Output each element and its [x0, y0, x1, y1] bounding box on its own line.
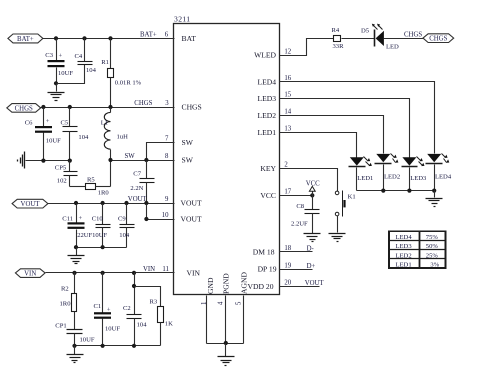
- svg-text:104: 104: [119, 232, 130, 239]
- svg-text:D-: D-: [307, 246, 315, 253]
- LED LED4: [426, 154, 452, 191]
- node junction pin10: [144, 217, 148, 221]
- svg-text:12: 12: [284, 48, 291, 55]
- capacitor C7 2.2N: [130, 161, 154, 204]
- resistor R3 1K: [135, 287, 174, 346]
- wire SW pin7 with bend: [147, 143, 175, 161]
- wire LED4 pin16: [280, 82, 435, 154]
- wire LED2 pin14: [280, 116, 384, 154]
- svg-text:D+: D+: [307, 263, 316, 270]
- node junction C6 bottom: [41, 159, 45, 163]
- svg-text:VOUT: VOUT: [305, 280, 325, 287]
- svg-text:10: 10: [162, 212, 169, 219]
- svg-text:9: 9: [165, 196, 169, 203]
- svg-text:LED: LED: [386, 43, 399, 50]
- wire SW pin8 rail: [111, 160, 175, 162]
- wire R5 up to SW: [110, 161, 112, 187]
- svg-text:KEY: KEY: [260, 164, 276, 173]
- svg-text:2: 2: [284, 162, 288, 169]
- svg-text:C6: C6: [25, 119, 33, 126]
- node junction C11 top: [74, 201, 78, 205]
- wire PGND pin4 down: [225, 296, 227, 344]
- capacitor C10 10UF: [92, 204, 111, 248]
- svg-text:SW: SW: [182, 156, 194, 165]
- svg-text:R3: R3: [150, 298, 158, 305]
- wire K1 to ground: [337, 216, 339, 233]
- node junction C10 bottom: [101, 245, 105, 249]
- svg-text:7: 7: [165, 136, 169, 143]
- svg-text:3: 3: [165, 100, 169, 107]
- svg-text:+: +: [107, 306, 111, 313]
- svg-text:10UF: 10UF: [92, 232, 107, 239]
- port VIN: [15, 269, 45, 278]
- node junction C2 R3 top: [132, 271, 136, 275]
- wire BAT+ rail: [43, 38, 175, 40]
- svg-text:1K: 1K: [165, 320, 173, 327]
- svg-text:2.2UF: 2.2UF: [291, 221, 308, 228]
- capacitor C6 polarized 10UF: [25, 108, 61, 161]
- svg-text:WLED: WLED: [254, 51, 276, 60]
- resistor R5 1R0: [70, 176, 111, 196]
- node junction VCC C8: [310, 193, 314, 197]
- svg-text:C11: C11: [62, 215, 73, 222]
- svg-text:C2: C2: [123, 305, 131, 312]
- svg-text:BAT: BAT: [182, 34, 197, 43]
- port BAT+: [8, 34, 43, 43]
- wire C4 bottom to C3 node: [57, 65, 85, 84]
- power VCC symbol: [306, 180, 320, 195]
- capacitor C1 polarized 10UF: [94, 273, 121, 346]
- svg-text:CHGS: CHGS: [134, 100, 152, 107]
- svg-text:20: 20: [284, 280, 291, 287]
- svg-text:4: 4: [217, 301, 224, 305]
- ground under IC GND pins: [218, 357, 235, 366]
- svg-text:VIN: VIN: [143, 266, 155, 273]
- svg-text:C4: C4: [75, 53, 83, 60]
- node junction C1 top: [101, 271, 105, 275]
- svg-text:3%: 3%: [430, 262, 439, 269]
- svg-text:6: 6: [165, 32, 169, 39]
- wire LED3 pin15: [280, 99, 410, 158]
- capacitor C4 104: [75, 39, 97, 74]
- svg-text:CHGS: CHGS: [182, 103, 202, 112]
- svg-text:11: 11: [162, 266, 169, 273]
- svg-text:VOUT: VOUT: [21, 201, 41, 208]
- LED LED2: [375, 154, 401, 191]
- node junction R3 branch: [132, 284, 136, 288]
- ground under CP1: [67, 346, 84, 363]
- wire VOUT pin9 rail: [48, 203, 175, 205]
- node junction LED4 bottom: [432, 189, 436, 193]
- resistor R1 0.01R: [101, 39, 141, 108]
- svg-text:0.01R 1%: 0.01R 1%: [115, 80, 142, 87]
- capacitor C3 polarized 10UF: [45, 39, 73, 84]
- svg-text:R1: R1: [101, 59, 109, 66]
- svg-text:10UF: 10UF: [58, 70, 73, 77]
- wire GND rail bottom: [207, 343, 244, 345]
- svg-text:LED3: LED3: [410, 175, 427, 182]
- svg-text:1R0: 1R0: [60, 300, 72, 307]
- svg-text:K1: K1: [348, 193, 356, 200]
- resistor R2 1R0: [60, 273, 77, 330]
- svg-text:104: 104: [137, 322, 148, 329]
- node junction C5 CP5: [68, 159, 72, 163]
- capacitor C9 104: [118, 204, 135, 248]
- svg-text:25%: 25%: [426, 252, 439, 259]
- svg-text:16: 16: [284, 75, 291, 82]
- svg-text:33R: 33R: [333, 43, 345, 50]
- wire WLED pin12: [280, 39, 334, 56]
- node junction PGND rail: [224, 341, 228, 345]
- svg-text:15: 15: [284, 92, 291, 99]
- svg-text:VIN: VIN: [24, 270, 36, 277]
- svg-text:VOUT: VOUT: [181, 215, 202, 224]
- port CHGS: [7, 104, 41, 113]
- svg-text:5: 5: [236, 301, 243, 305]
- capacitor CP5 102: [55, 161, 78, 187]
- svg-text:VCC: VCC: [260, 191, 276, 200]
- svg-text:LED2: LED2: [396, 252, 412, 259]
- wire VOUT caps bottom rail: [77, 247, 127, 249]
- node junction LED3 bottom: [407, 189, 411, 193]
- node junction C6 top: [41, 105, 45, 109]
- ground under C8: [304, 234, 321, 242]
- svg-text:CP1: CP1: [55, 322, 66, 329]
- svg-text:DP 19: DP 19: [258, 265, 277, 274]
- node junction R2 top: [72, 271, 76, 275]
- svg-text:LED3: LED3: [396, 243, 413, 250]
- wire VDD pin20: [280, 286, 320, 288]
- wire CHGS rail: [41, 107, 175, 109]
- ground under K1: [329, 234, 346, 242]
- svg-text:8: 8: [165, 153, 169, 160]
- svg-text:19: 19: [284, 262, 291, 269]
- capacitor C8 2.2UF: [291, 196, 320, 234]
- svg-text:R4: R4: [332, 27, 340, 34]
- svg-text:+: +: [46, 118, 50, 125]
- svg-text:DM 18: DM 18: [253, 247, 275, 256]
- inductor L1 1uH: [101, 108, 128, 161]
- svg-text:LED3: LED3: [257, 94, 276, 103]
- svg-text:C8: C8: [296, 203, 304, 210]
- svg-text:10UF: 10UF: [105, 325, 120, 332]
- svg-text:C7: C7: [133, 170, 141, 177]
- svg-text:3211: 3211: [174, 15, 191, 24]
- wire AGND pin5 down: [243, 296, 245, 344]
- wire ground rail left: [26, 160, 70, 162]
- node junction LED2 bottom: [381, 189, 385, 193]
- svg-text:C9: C9: [118, 215, 126, 222]
- svg-text:AGND: AGND: [240, 272, 249, 294]
- op-amp U1 main IC body 3211: [174, 24, 280, 295]
- svg-text:CHGS: CHGS: [429, 36, 447, 43]
- wire pin10 with bend: [147, 204, 175, 220]
- svg-text:LED4: LED4: [435, 174, 452, 181]
- svg-text:C5: C5: [61, 120, 69, 127]
- svg-text:VDD 20: VDD 20: [248, 282, 274, 291]
- wire VIN rail: [46, 272, 175, 274]
- wire VCC pin17: [280, 195, 313, 197]
- svg-text:102: 102: [57, 177, 67, 184]
- capacitor C2 104: [123, 273, 147, 346]
- svg-text:LED4: LED4: [257, 77, 276, 86]
- svg-text:R5: R5: [87, 176, 95, 183]
- svg-text:CP5: CP5: [55, 164, 67, 171]
- resistor R4 33R: [332, 27, 375, 50]
- LED LED1: [349, 157, 374, 191]
- svg-text:75%: 75%: [426, 234, 439, 241]
- svg-text:PGND: PGND: [221, 273, 230, 294]
- table LED duty percentages: [389, 231, 446, 268]
- ground under C11: [68, 248, 85, 264]
- svg-text:10UF: 10UF: [46, 137, 61, 144]
- LED LED3: [402, 157, 428, 191]
- svg-text:BAT+: BAT+: [17, 36, 34, 43]
- node junction C3 top: [54, 36, 58, 40]
- port VOUT: [12, 199, 48, 208]
- node junction C11 gnd: [74, 245, 78, 249]
- node junction L1 SW: [108, 158, 112, 162]
- svg-text:CHGS: CHGS: [15, 105, 33, 112]
- node junction C3 C4 bottom: [54, 81, 58, 85]
- svg-text:LED1: LED1: [257, 128, 276, 137]
- svg-text:2.2N: 2.2N: [130, 185, 143, 192]
- svg-text:+: +: [79, 215, 83, 222]
- svg-text:C3: C3: [45, 52, 53, 59]
- wire KEY pin2: [280, 169, 338, 192]
- svg-text:LED4: LED4: [396, 234, 413, 241]
- node junction R1 bottom L1 top: [108, 105, 112, 109]
- ground chassis left sideways: [18, 152, 25, 169]
- svg-text:22UF: 22UF: [77, 232, 92, 239]
- node junction C9 top: [124, 201, 128, 205]
- node junction C2 bottom: [132, 344, 136, 348]
- capacitor C5 104: [61, 108, 89, 161]
- svg-text:C1: C1: [94, 303, 102, 310]
- node junction C5 top: [68, 105, 72, 109]
- capacitor CP1 10UF: [55, 322, 95, 345]
- svg-text:VOUT: VOUT: [181, 199, 202, 208]
- svg-text:D5: D5: [361, 27, 370, 34]
- switch K1: [335, 191, 355, 217]
- node junction C1 bottom: [101, 344, 105, 348]
- capacitor C11 polarized 22UF: [62, 204, 92, 248]
- svg-text:50%: 50%: [426, 243, 439, 250]
- wire LED1 pin13: [280, 133, 357, 158]
- svg-text:BAT+: BAT+: [140, 32, 157, 39]
- node junction R1 top: [108, 36, 112, 40]
- wire LED bottom rail: [357, 190, 435, 192]
- wire VIN caps bottom rail: [75, 345, 161, 347]
- port CHGS right: [423, 34, 454, 43]
- ground under C3: [48, 84, 65, 101]
- svg-text:+: +: [59, 53, 63, 60]
- svg-text:1uH: 1uH: [117, 134, 129, 141]
- svg-text:LED1: LED1: [357, 175, 373, 182]
- diode D5 LED: [361, 24, 424, 51]
- svg-text:CHGS: CHGS: [404, 31, 422, 38]
- svg-text:L1: L1: [101, 119, 108, 126]
- node junction C10 top: [101, 201, 105, 205]
- svg-text:104: 104: [78, 134, 89, 141]
- svg-text:1R0: 1R0: [98, 189, 110, 196]
- node junction C7 bottom pin9: [144, 201, 148, 205]
- svg-text:13: 13: [284, 126, 291, 133]
- svg-text:LED2: LED2: [257, 111, 276, 120]
- svg-text:LED2: LED2: [384, 174, 400, 181]
- wire DM pin18: [280, 251, 313, 253]
- svg-text:17: 17: [284, 189, 291, 196]
- svg-text:VIN: VIN: [187, 268, 201, 277]
- node junction CP1 gnd: [72, 344, 76, 348]
- node junction C4 top: [82, 36, 86, 40]
- svg-text:LED1: LED1: [396, 262, 412, 269]
- svg-text:14: 14: [284, 108, 291, 115]
- wire stem to ground: [225, 344, 227, 357]
- node junction pin7 pin8: [144, 158, 148, 162]
- svg-text:104: 104: [86, 67, 97, 74]
- svg-text:18: 18: [284, 245, 291, 252]
- wire GND pin1 down: [206, 296, 208, 344]
- svg-text:C10: C10: [92, 215, 104, 222]
- wire DP pin19: [280, 269, 313, 271]
- svg-text:10UF: 10UF: [80, 336, 95, 343]
- svg-text:R2: R2: [61, 286, 69, 293]
- svg-text:GND: GND: [206, 277, 215, 294]
- svg-text:SW: SW: [125, 153, 136, 160]
- ground under LED rail: [426, 191, 443, 207]
- svg-text:SW: SW: [182, 138, 194, 147]
- svg-text:VCC: VCC: [306, 180, 320, 187]
